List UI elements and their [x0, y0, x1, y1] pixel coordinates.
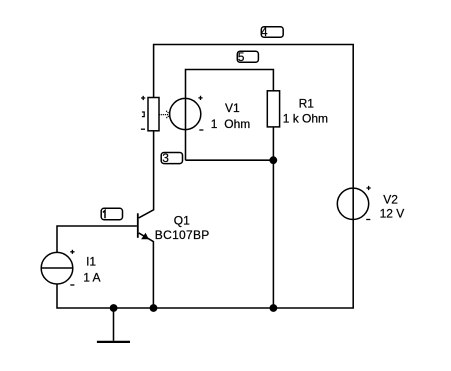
svg-text:V1: V1 [225, 101, 240, 115]
svg-text:5: 5 [238, 50, 245, 64]
svg-text:1: 1 [211, 117, 218, 131]
svg-text:Ohm: Ohm [224, 117, 250, 131]
svg-text:1 A: 1 A [83, 271, 100, 285]
svg-text:1 k Ohm: 1 k Ohm [283, 112, 328, 126]
svg-text:I1: I1 [86, 255, 96, 269]
svg-text:12 V: 12 V [380, 207, 405, 221]
svg-text:4: 4 [261, 25, 268, 39]
svg-text:V2: V2 [383, 193, 398, 207]
svg-text:R1: R1 [299, 97, 315, 111]
svg-text:3: 3 [162, 151, 169, 165]
svg-text:BC107BP: BC107BP [155, 228, 210, 242]
svg-text:Q1: Q1 [174, 214, 190, 228]
